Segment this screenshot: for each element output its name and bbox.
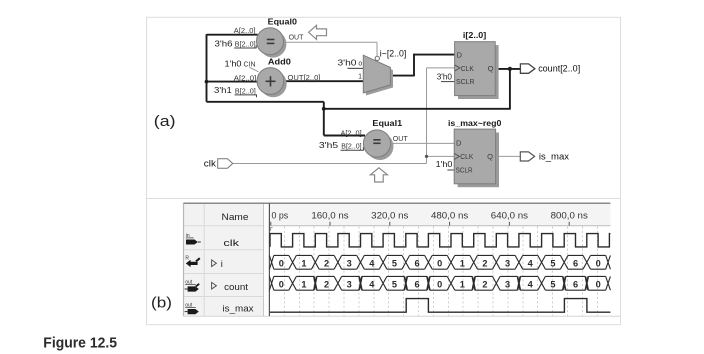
svg-text:2: 2 — [324, 280, 329, 290]
svg-text:6: 6 — [573, 280, 578, 290]
svg-text:Q: Q — [487, 152, 493, 161]
svg-text:Q: Q — [488, 64, 494, 73]
svg-text:D: D — [456, 139, 462, 148]
svg-text:5: 5 — [550, 280, 555, 290]
svg-text:1'h0: 1'h0 — [436, 159, 453, 169]
svg-text:4: 4 — [369, 259, 375, 269]
svg-text:1: 1 — [460, 280, 465, 290]
svg-text:2: 2 — [482, 259, 487, 269]
svg-text:6: 6 — [573, 259, 578, 269]
svg-text:6: 6 — [415, 280, 420, 290]
svg-text:1: 1 — [358, 74, 362, 81]
svg-text:B[2..0]: B[2..0] — [235, 42, 256, 49]
svg-text:CLK: CLK — [461, 64, 474, 73]
svg-text:0 ps: 0 ps — [272, 211, 289, 221]
svg-text:OUT: OUT — [393, 136, 409, 143]
svg-text:SCLR: SCLR — [456, 165, 473, 174]
svg-text:B[2..0]: B[2..0] — [341, 144, 361, 151]
svg-text:A[2..0]: A[2..0] — [234, 28, 256, 35]
svg-text:is_max~reg0: is_max~reg0 — [448, 118, 502, 128]
svg-text:CLK: CLK — [460, 152, 473, 161]
svg-text:1: 1 — [301, 259, 306, 269]
svg-text:0: 0 — [596, 259, 601, 269]
svg-text:800,0 ns: 800,0 ns — [551, 211, 589, 221]
svg-text:5: 5 — [392, 280, 397, 290]
svg-text:480,0 ns: 480,0 ns — [431, 211, 469, 221]
svg-text:A[2..0]: A[2..0] — [341, 130, 362, 137]
svg-text:5: 5 — [550, 259, 555, 269]
svg-text:i[2..0]: i[2..0] — [463, 30, 487, 40]
svg-text:R: R — [185, 256, 189, 262]
svg-text:3'h6: 3'h6 — [215, 39, 233, 49]
svg-text:3: 3 — [505, 259, 510, 269]
svg-text:OUT[2..0]: OUT[2..0] — [288, 75, 321, 82]
svg-text:3'h5: 3'h5 — [319, 140, 339, 150]
svg-text:2: 2 — [482, 280, 487, 290]
svg-text:clk: clk — [223, 238, 239, 248]
svg-text:(a): (a) — [154, 114, 176, 130]
svg-text:clk: clk — [204, 159, 216, 170]
svg-text:D: D — [457, 51, 463, 60]
svg-text:640,0 ns: 640,0 ns — [491, 211, 529, 221]
svg-text:SCLR: SCLR — [456, 77, 475, 86]
svg-text:0: 0 — [279, 280, 284, 290]
svg-text:3'h0: 3'h0 — [338, 58, 357, 68]
svg-text:4: 4 — [369, 280, 375, 290]
svg-text:6: 6 — [415, 259, 420, 269]
svg-text:A[2..0]: A[2..0] — [234, 75, 257, 82]
svg-text:OUT: OUT — [289, 35, 305, 42]
svg-text:Figure 12.5: Figure 12.5 — [43, 335, 117, 352]
svg-text:3: 3 — [347, 259, 352, 269]
svg-text:160,0 ns: 160,0 ns — [311, 211, 349, 221]
svg-text:320,0 ns: 320,0 ns — [371, 211, 409, 221]
svg-text:count: count — [224, 282, 248, 292]
svg-text:Equal1: Equal1 — [372, 118, 402, 128]
svg-text:B[2..0]: B[2..0] — [235, 88, 256, 95]
svg-text:i~[2..0]: i~[2..0] — [380, 49, 407, 59]
svg-text:Add0: Add0 — [268, 57, 291, 67]
svg-text:0: 0 — [437, 280, 442, 290]
svg-text:i: i — [221, 259, 223, 269]
svg-text:4: 4 — [528, 259, 534, 269]
svg-text:5: 5 — [392, 259, 397, 269]
svg-text:1'h0: 1'h0 — [225, 58, 242, 68]
svg-text:is_max: is_max — [539, 151, 570, 161]
svg-text:3'h0: 3'h0 — [437, 72, 453, 82]
svg-text:Equal0: Equal0 — [268, 16, 298, 26]
svg-text:1: 1 — [460, 259, 465, 269]
svg-text:0: 0 — [596, 280, 601, 290]
svg-text:CIN: CIN — [244, 61, 256, 68]
svg-text:1: 1 — [301, 280, 306, 290]
svg-text:3: 3 — [347, 280, 352, 290]
svg-text:(b): (b) — [151, 296, 172, 312]
svg-text:count[2..0]: count[2..0] — [538, 63, 580, 73]
svg-text:Name: Name — [222, 211, 249, 222]
svg-text:0: 0 — [437, 259, 442, 269]
svg-text:0: 0 — [279, 259, 284, 269]
svg-text:4: 4 — [528, 280, 534, 290]
svg-text:2: 2 — [324, 259, 329, 269]
svg-text:3'h1: 3'h1 — [214, 85, 232, 95]
svg-text:3: 3 — [505, 280, 510, 290]
svg-text:o: o — [358, 61, 362, 68]
svg-text:is_max: is_max — [223, 304, 254, 314]
